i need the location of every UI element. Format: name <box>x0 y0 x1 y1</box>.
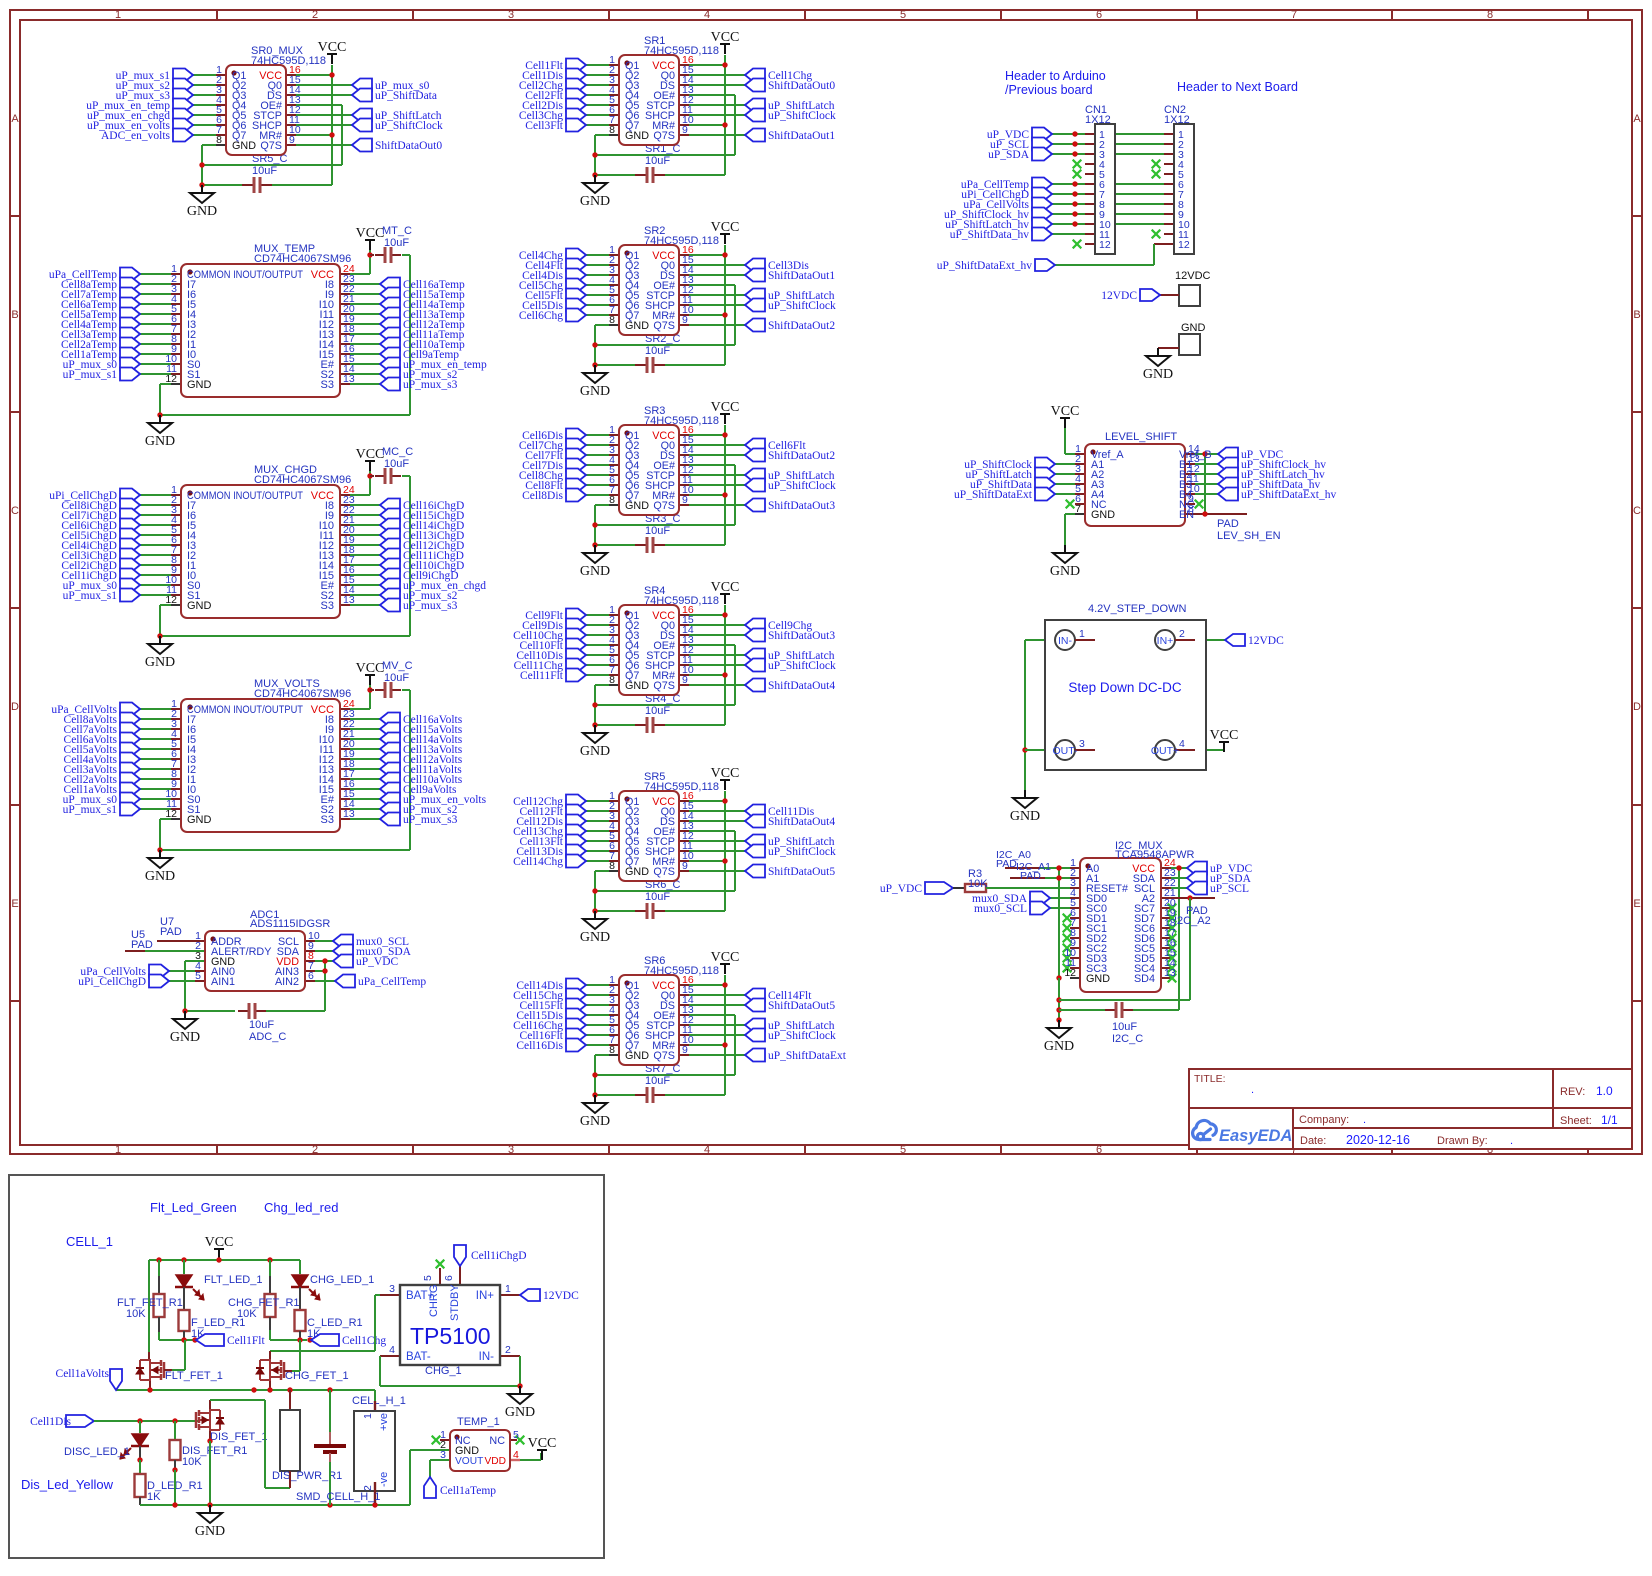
wire <box>193 84 216 86</box>
wire <box>1164 223 1174 225</box>
wire <box>1195 463 1218 465</box>
wire <box>350 564 380 566</box>
wire <box>350 728 380 730</box>
wire <box>679 304 689 306</box>
wire <box>193 94 216 96</box>
wire <box>160 1374 163 1380</box>
wire <box>174 1421 176 1439</box>
wire <box>299 1340 301 1371</box>
wire <box>586 474 609 476</box>
wire <box>586 454 609 456</box>
wire <box>171 798 181 800</box>
wire <box>171 293 181 295</box>
svg-text:A: A <box>1633 113 1641 125</box>
svg-text:Step Down DC-DC: Step Down DC-DC <box>1068 680 1182 695</box>
junction <box>1056 875 1061 880</box>
svg-text:MC_C: MC_C <box>382 446 413 458</box>
wire <box>140 584 171 586</box>
net flag uP_ShiftLatch <box>745 649 765 662</box>
wire <box>1133 1009 1179 1011</box>
wire <box>140 293 171 295</box>
net flag Cell14Flt <box>745 989 765 1002</box>
wire <box>689 64 725 66</box>
wire <box>679 984 689 986</box>
wire <box>586 74 609 76</box>
net flag Cell3Chg <box>566 109 586 122</box>
wire <box>689 284 735 286</box>
net flag ShiftDataOut2 <box>745 319 765 332</box>
wire <box>724 791 726 911</box>
svg-text:1: 1 <box>1079 628 1085 640</box>
wire <box>350 283 380 285</box>
wire <box>171 383 181 385</box>
wire <box>171 524 181 526</box>
wire <box>171 574 181 576</box>
wire <box>270 1339 307 1341</box>
svg-text:uP_mux_s1: uP_mux_s1 <box>63 369 118 381</box>
wire <box>594 135 596 175</box>
wire <box>340 564 350 566</box>
wire <box>350 363 380 365</box>
wire <box>350 293 380 295</box>
wire <box>609 74 619 76</box>
svg-text:12: 12 <box>1178 239 1190 251</box>
junction <box>267 1387 272 1392</box>
wire <box>1075 473 1085 475</box>
net flag uP_ShiftClock <box>745 845 765 858</box>
wire <box>689 254 725 256</box>
wire <box>679 1014 689 1016</box>
wire <box>1010 877 1045 879</box>
ground <box>594 1095 596 1103</box>
wire <box>679 1024 689 1026</box>
wire <box>171 604 181 606</box>
wire <box>1161 887 1171 889</box>
svg-text:12: 12 <box>1064 967 1076 979</box>
wire <box>689 134 745 136</box>
wire <box>1070 947 1080 949</box>
wire <box>350 584 380 586</box>
wire <box>609 840 619 842</box>
net flag Cell7Dis <box>566 459 586 472</box>
wire <box>679 484 689 486</box>
wire <box>689 324 745 326</box>
svg-text:COMMON INOUT/OUTPUT: COMMON INOUT/OUTPUT <box>187 269 303 281</box>
capacitor SR2_C 10uF <box>635 364 647 366</box>
wire <box>171 283 181 285</box>
wire <box>369 685 371 709</box>
svg-text:VCC: VCC <box>1051 404 1080 419</box>
wire <box>1005 867 1040 869</box>
net flag ShiftDataOut5 <box>745 865 765 878</box>
wire <box>296 134 332 136</box>
temperature sensor TEMP_1 <box>450 1430 510 1471</box>
svg-text:8: 8 <box>609 860 615 872</box>
wire <box>171 323 181 325</box>
svg-text:10uF: 10uF <box>645 525 670 537</box>
wire <box>171 313 181 315</box>
wire <box>689 840 745 842</box>
svg-text:VCC: VCC <box>205 1235 234 1250</box>
svg-text:GND: GND <box>187 204 217 219</box>
net flag <box>424 1477 436 1498</box>
svg-text:5: 5 <box>195 970 201 982</box>
wire <box>410 1449 450 1451</box>
wire <box>595 324 609 326</box>
DC-DC module 4.2V_STEP_DOWN <box>1045 620 1206 770</box>
wire <box>264 1400 266 1488</box>
wire <box>209 1431 211 1441</box>
junction <box>216 1257 221 1262</box>
wire <box>679 840 689 842</box>
svg-text:10K: 10K <box>968 878 988 890</box>
pad U7 <box>157 940 205 942</box>
wire <box>309 1289 316 1296</box>
wire <box>609 94 619 96</box>
svg-text:9: 9 <box>682 314 688 326</box>
wire <box>1070 927 1080 929</box>
wire <box>340 748 350 750</box>
wire <box>689 1054 745 1056</box>
svg-text:B: B <box>1633 309 1640 321</box>
svg-text:FLT_FET_1: FLT_FET_1 <box>165 1370 223 1382</box>
battery cell symbol <box>329 1432 331 1444</box>
svg-text:PAD: PAD <box>131 939 153 951</box>
wire <box>269 1381 271 1390</box>
wire <box>198 1424 201 1430</box>
wire <box>140 748 171 750</box>
net flag Cell13aVolts <box>380 743 400 756</box>
wire <box>595 724 635 726</box>
svg-text:7: 7 <box>1075 503 1081 515</box>
wire <box>160 849 410 851</box>
wire <box>679 254 689 256</box>
wire <box>679 810 689 812</box>
wire <box>171 373 181 375</box>
wire <box>315 960 333 962</box>
svg-text:uP_SCL: uP_SCL <box>1210 883 1249 895</box>
net flag Cell13aTemp <box>380 308 400 321</box>
wire <box>340 594 350 596</box>
wire <box>350 758 380 760</box>
wire <box>595 890 735 892</box>
wire <box>679 684 689 686</box>
wire <box>609 484 619 486</box>
ground <box>519 1386 521 1394</box>
wire <box>1055 483 1075 485</box>
wire <box>586 1034 609 1036</box>
net flag uP_ShiftData <box>352 89 372 102</box>
net flag Cell1Dis <box>66 1415 94 1427</box>
wire <box>689 614 725 616</box>
wire <box>350 544 380 546</box>
wire <box>679 104 689 106</box>
wire <box>586 830 609 832</box>
svg-text:GND: GND <box>580 194 610 209</box>
wire <box>160 604 171 606</box>
wire <box>1085 173 1095 175</box>
wire <box>510 1439 517 1441</box>
svg-text:10uF: 10uF <box>384 458 409 470</box>
wire <box>1164 163 1174 165</box>
svg-text:Q7S: Q7S <box>653 500 675 512</box>
svg-text:uP_SDA: uP_SDA <box>988 149 1030 161</box>
wire <box>171 768 181 770</box>
wire <box>609 284 619 286</box>
wire <box>140 1504 410 1506</box>
svg-text:Cell16Dis: Cell16Dis <box>516 1040 563 1052</box>
svg-text:VCC: VCC <box>711 766 740 781</box>
net flag Cell2Dis <box>566 99 586 112</box>
ground <box>159 636 161 644</box>
svg-text:8: 8 <box>609 494 615 506</box>
wire <box>140 738 171 740</box>
net flag uP_ShiftData <box>1035 478 1055 491</box>
wire <box>193 1289 200 1296</box>
svg-text:5: 5 <box>422 1275 434 1281</box>
wire <box>350 554 380 556</box>
wire <box>586 1004 609 1006</box>
wire <box>1052 143 1164 145</box>
net flag uP_mux_en_temp <box>173 99 193 112</box>
net flag uPa_CellVolts <box>149 965 169 978</box>
wire <box>350 534 380 536</box>
wire <box>340 768 350 770</box>
wire <box>216 144 226 146</box>
svg-text:LEV_SH_EN: LEV_SH_EN <box>1217 530 1281 542</box>
wire <box>350 788 380 790</box>
svg-text:GND: GND <box>1143 367 1173 382</box>
wire <box>174 1460 176 1470</box>
wire <box>299 1331 301 1340</box>
capacitor SR3_C 10uF <box>635 544 647 546</box>
svg-text:GND: GND <box>625 500 649 512</box>
wire <box>149 1359 151 1381</box>
svg-text:GND: GND <box>1050 564 1080 579</box>
wire <box>1055 493 1075 495</box>
wire <box>586 444 609 446</box>
wire <box>689 114 745 116</box>
junction <box>157 412 162 417</box>
junction <box>172 1502 177 1507</box>
wire <box>171 564 181 566</box>
wire <box>340 283 350 285</box>
wire <box>1195 473 1218 475</box>
no-connect cross <box>1168 904 1177 913</box>
svg-text:GND: GND <box>145 434 175 449</box>
net flag Cell12Chg <box>566 795 586 808</box>
wire <box>171 303 181 305</box>
svg-text:COMMON INOUT/OUTPUT: COMMON INOUT/OUTPUT <box>187 704 303 716</box>
svg-text:12: 12 <box>1099 239 1111 251</box>
wire <box>689 984 725 986</box>
wire <box>1075 513 1085 515</box>
wire <box>195 980 205 982</box>
net flag Cell8Dis <box>566 489 586 502</box>
wire <box>689 994 745 996</box>
wire <box>193 124 216 126</box>
svg-text:GND: GND <box>625 130 649 142</box>
wire <box>679 444 689 446</box>
junction <box>199 182 204 187</box>
svg-text:CELL_1: CELL_1 <box>66 1234 113 1249</box>
net flag Cell16iChgD <box>380 499 400 512</box>
wire <box>724 245 726 365</box>
wire <box>140 283 171 285</box>
wire <box>409 476 411 636</box>
svg-text:GND: GND <box>580 1114 610 1129</box>
wire <box>269 1276 271 1294</box>
svg-text:GND: GND <box>580 384 610 399</box>
junction <box>199 162 204 167</box>
wire <box>158 1276 160 1294</box>
wire <box>1075 463 1085 465</box>
wire <box>140 778 171 780</box>
svg-text:9: 9 <box>682 124 688 136</box>
wire <box>340 574 350 576</box>
wire <box>440 1439 450 1441</box>
wire <box>679 1004 689 1006</box>
wire <box>340 534 350 536</box>
net flag Cell4aVolts <box>120 753 140 766</box>
svg-text:ShiftDataOut5: ShiftDataOut5 <box>768 866 835 878</box>
wire <box>171 778 181 780</box>
wire <box>375 1294 380 1296</box>
wire <box>594 685 596 725</box>
wire <box>679 134 689 136</box>
net flag ShiftDataOut0 <box>352 139 372 152</box>
wire <box>689 860 725 862</box>
wire <box>609 1024 619 1026</box>
svg-text:GND: GND <box>232 140 256 152</box>
net flag uPi_CellChgD <box>1032 188 1052 201</box>
wire <box>171 808 181 810</box>
svg-text:REV:: REV: <box>1560 1086 1585 1098</box>
wire <box>1195 513 1247 515</box>
capacitor SR5_C 10uF <box>242 184 254 186</box>
wire <box>459 1266 461 1285</box>
svg-text:OUT+: OUT+ <box>1151 745 1179 757</box>
ground <box>594 911 596 919</box>
wire <box>140 373 171 375</box>
net flag uP_ShiftLatch <box>745 289 765 302</box>
net flag uPa_CellTemp <box>120 268 140 281</box>
net flag Cell15Dis <box>566 1009 586 1022</box>
wire <box>1185 473 1195 475</box>
wire <box>586 810 609 812</box>
net flag Cell1aVolts <box>120 783 140 796</box>
wire <box>1161 967 1171 969</box>
wire <box>1164 183 1174 185</box>
wire <box>140 768 171 770</box>
wire <box>171 544 181 546</box>
svg-text:SD4: SD4 <box>1134 973 1155 985</box>
svg-text:ADS1115IDGSR: ADS1115IDGSR <box>250 918 330 930</box>
net flag Cell16Flt <box>566 1029 586 1042</box>
junction <box>1056 1007 1061 1012</box>
svg-text:4: 4 <box>704 1144 710 1156</box>
wire <box>595 344 735 346</box>
net flag Cell13Dis <box>566 845 586 858</box>
wire <box>665 544 725 546</box>
shift register SR2 74HC595D <box>619 245 679 335</box>
junction <box>322 958 327 963</box>
wire <box>286 84 296 86</box>
wire <box>1065 513 1075 515</box>
svg-text:uP_mux_s3: uP_mux_s3 <box>403 379 458 391</box>
wire <box>1075 503 1085 505</box>
wire <box>159 1339 196 1341</box>
net flag Cell12aVolts <box>380 753 400 766</box>
wire <box>679 64 689 66</box>
svg-text:CD74HC4067SM96: CD74HC4067SM96 <box>254 253 351 265</box>
wire <box>679 264 689 266</box>
svg-text:9: 9 <box>682 674 688 686</box>
svg-text:2: 2 <box>1179 628 1185 640</box>
svg-text:Cell11Flt: Cell11Flt <box>520 670 564 682</box>
svg-text:+ve: +ve <box>378 1413 390 1431</box>
net flag uP_VDC <box>1187 862 1207 875</box>
wire <box>272 184 332 186</box>
net flag Cell12iChgD <box>380 539 400 552</box>
wire <box>1185 453 1195 455</box>
wire <box>140 564 171 566</box>
wire <box>689 624 745 626</box>
wire <box>679 494 689 496</box>
svg-text:4: 4 <box>389 1344 395 1356</box>
wire <box>340 323 350 325</box>
svg-text:MT_C: MT_C <box>382 225 412 237</box>
wire <box>689 494 725 496</box>
wire <box>1085 133 1095 135</box>
net flag uP_mux_s0 <box>120 579 140 592</box>
svg-text:uP_ShiftClock: uP_ShiftClock <box>768 480 836 492</box>
resistor FLT_FET_R1 10K <box>154 1294 165 1317</box>
wire <box>193 104 216 106</box>
wire <box>1164 153 1174 155</box>
wire <box>1085 163 1095 165</box>
wire <box>269 1351 271 1359</box>
net flag ShiftDataOut4 <box>745 679 765 692</box>
wire <box>370 689 374 691</box>
junction <box>592 152 597 157</box>
wire <box>609 264 619 266</box>
wire <box>280 1367 283 1373</box>
capacitor SR7_C 10uF <box>635 1094 647 1096</box>
wire <box>609 810 619 812</box>
wire <box>140 554 171 556</box>
svg-text:CHRG: CHRG <box>428 1285 440 1317</box>
wire <box>594 1055 596 1095</box>
wire <box>1153 244 1155 265</box>
wire <box>679 274 689 276</box>
wire <box>586 840 609 842</box>
wire <box>350 273 370 275</box>
net flag uP_mux_s2 <box>380 803 400 816</box>
wire <box>1164 213 1174 215</box>
svg-text:1: 1 <box>115 9 121 21</box>
wire <box>340 363 350 365</box>
wire <box>305 940 315 942</box>
wire <box>140 494 171 496</box>
wire <box>296 104 342 106</box>
svg-text:VDD: VDD <box>484 1456 506 1467</box>
wire <box>1206 639 1225 641</box>
net flag Cell1Dis <box>566 69 586 82</box>
wire <box>679 664 689 666</box>
svg-text:S3: S3 <box>321 379 334 391</box>
wire <box>1164 203 1174 205</box>
